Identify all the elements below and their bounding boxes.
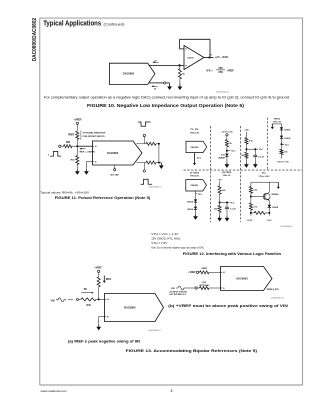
svg-text:IO: IO [210,55,213,57]
svg-text:NOT EXCEED VLC: NOT EXCEED VLC [170,294,187,296]
svg-text:1N914: 1N914 [187,208,194,211]
svg-text:DAC0800: DAC0800 [123,73,135,76]
svg-text:DS005686-12: DS005686-12 [271,297,285,299]
svg-text:+VREF: +VREF [73,117,82,121]
svg-text:+2.5 − IO RL: +2.5 − IO RL [215,56,229,59]
svg-text:OPTIONAL: OPTIONAL [199,284,210,287]
svg-text:FIGURE 12. Interfacing with Va: FIGURE 12. Interfacing with Various Logi… [183,251,281,256]
svg-text:+15V: +15V [244,130,249,132]
svg-text:VLC: VLC [267,220,272,222]
svg-text:5V CMOS: 5V CMOS [190,172,200,174]
svg-text:AC INPUT SHOULD: AC INPUT SHOULD [170,290,188,293]
svg-text:R15: R15 [202,282,207,284]
svg-text:IO: IO [154,88,157,90]
svg-text:VTH=−1.29V: VTH=−1.29V [259,176,271,178]
svg-text:3k: 3k [229,143,232,145]
svg-text:2.7k: 2.7k [253,206,258,208]
svg-text:VTH=−5V: VTH=−5V [222,175,231,177]
svg-text:IREF: IREF [106,279,112,281]
svg-text:−5.2V: −5.2V [246,220,252,222]
svg-text:VLC: VLC [197,158,202,160]
svg-text:(b) +VREF must be above peak p: (b) +VREF must be above peak positive sw… [168,304,288,308]
svg-text:Typical values: RIN=5k, +VIN=1: Typical values: RIN=5k, +VIN=10V [40,190,89,194]
svg-text:OPTIONAL RESISTOR: OPTIONAL RESISTOR [83,132,106,135]
svg-text:DS005686-11: DS005686-11 [148,330,162,332]
svg-text:PMOS: PMOS [274,118,281,120]
svg-text:14: 14 [95,145,97,148]
svg-text:NO CAP: NO CAP [110,174,119,177]
svg-text:ZENER: ZENER [218,157,225,159]
svg-text:VTH=2.6V: VTH=2.6V [190,176,200,178]
svg-text:DAC0800: DAC0800 [107,152,119,155]
svg-text:15: 15 [107,316,109,318]
svg-text:FIGURE 10. Negative Low Impeda: FIGURE 10. Negative Low Impedance Output… [87,103,245,108]
svg-text:RREF: RREF [68,135,75,137]
svg-text:0.1 µF: 0.1 µF [230,208,236,210]
svg-text:1N914: 1N914 [272,206,279,209]
svg-text:VLC: VLC [198,194,203,196]
svg-text:VIN: VIN [171,288,175,290]
svg-text:VREF: VREF [227,69,234,73]
svg-text:www.national.com: www.national.com [41,389,68,393]
svg-text:8: 8 [171,389,173,393]
svg-text:VTH = 7.6V: VTH = 7.6V [151,241,167,245]
svg-text:14: 14 [223,271,225,274]
svg-text:10V PMOS: 10V PMOS [222,172,232,174]
svg-text:RIN: RIN [87,305,91,307]
svg-text:+5V TO +15V: +5V TO +15V [221,132,233,134]
svg-text:IO: IO [154,61,157,63]
svg-text:VTH≈−5V: VTH≈−5V [273,121,282,123]
svg-text:FIGURE 11. Pulsed Reference Op: FIGURE 11. Pulsed Reference Operation (N… [55,195,151,200]
svg-text:Typical Applications: Typical Applications [43,19,101,28]
svg-text:+VREF: +VREF [94,267,102,269]
svg-text:VIN: VIN [51,300,55,302]
svg-text:DAC0800/DAC0802: DAC0800/DAC0802 [32,18,38,62]
svg-text:TTL, DTL: TTL, DTL [190,129,200,131]
svg-text:6.2V: 6.2V [221,155,226,157]
svg-text:DAC0800: DAC0800 [191,146,199,149]
svg-text:For complementary output opera: For complementary output operation as a … [44,95,290,99]
svg-text:DS005686-4: DS005686-4 [281,226,294,228]
svg-text:15: 15 [223,288,225,290]
svg-text:DAC0800: DAC0800 [190,184,198,187]
svg-text:FIGURE 13. Accommodating Bipol: FIGURE 13. Accommodating Bipolar Referen… [126,348,258,353]
svg-text:10k: 10k [284,152,288,154]
svg-text:+VREF: +VREF [188,272,196,274]
svg-text:256: 256 [218,70,223,74]
svg-text:FOR OFFSET INPUTS: FOR OFFSET INPUTS [83,136,106,138]
svg-text:1N914: 1N914 [284,128,291,131]
svg-text:2N3904: 2N3904 [271,193,279,196]
svg-text:IREF ≈ +VIN/RIN: IREF ≈ +VIN/RIN [80,150,96,153]
svg-text:IIN: IIN [84,289,87,291]
svg-text:VTH=1.4V: VTH=1.4V [190,132,200,135]
svg-text:Note: Do not exceed negative l: Note: Do not exceed negative logic input… [151,246,205,250]
svg-text:1N914: 1N914 [284,137,291,140]
svg-text:−10V TO −15V: −10V TO −15V [276,162,289,164]
svg-text:9.1k: 9.1k [249,141,254,143]
svg-text:R15: R15 [71,160,76,162]
svg-text:RREF: RREF [201,268,207,270]
svg-text:0: 0 [48,154,49,156]
svg-text:DS005686-21: DS005686-21 [149,186,163,188]
svg-text:LM741: LM741 [187,56,194,59]
svg-text:RREF ∥ R15: RREF ∥ R15 [267,288,280,291]
svg-text:14: 14 [107,298,109,301]
svg-text:255: 255 [218,66,223,70]
svg-text:(Continued): (Continued) [104,22,126,27]
svg-text:0.1 µF: 0.1 µF [258,156,264,158]
svg-text:VLC: VLC [231,151,236,153]
svg-text:15: 15 [95,161,97,163]
svg-text:RL: RL [182,74,186,76]
svg-text:62k: 62k [222,190,226,192]
svg-text:20k: 20k [214,209,218,211]
svg-text:(a) IREF ≥ peak negative swing: (a) IREF ≥ peak negative swing of IIN [68,340,140,344]
svg-text:1.3k: 1.3k [253,190,258,192]
svg-text:IFS =: IFS = [207,69,214,73]
svg-text:VTH = VLC + 1.4V: VTH = VLC + 1.4V [151,232,178,236]
svg-text:RIN: RIN [66,142,70,144]
svg-text:VLC: VLC [230,203,235,205]
svg-text:VLC: VLC [285,144,290,146]
svg-text:1N914: 1N914 [187,201,194,204]
svg-text:VLC: VLC [259,149,264,151]
svg-text:ECL: ECL [262,173,267,175]
svg-text:DS005686-20: DS005686-20 [216,91,230,93]
svg-text:−10V: −10V [217,179,222,181]
svg-text:DAC0800: DAC0800 [237,277,249,280]
svg-text:DAC0800: DAC0800 [124,305,136,309]
svg-text:15V CMOS, HTL, HNIL: 15V CMOS, HTL, HNIL [151,236,181,240]
